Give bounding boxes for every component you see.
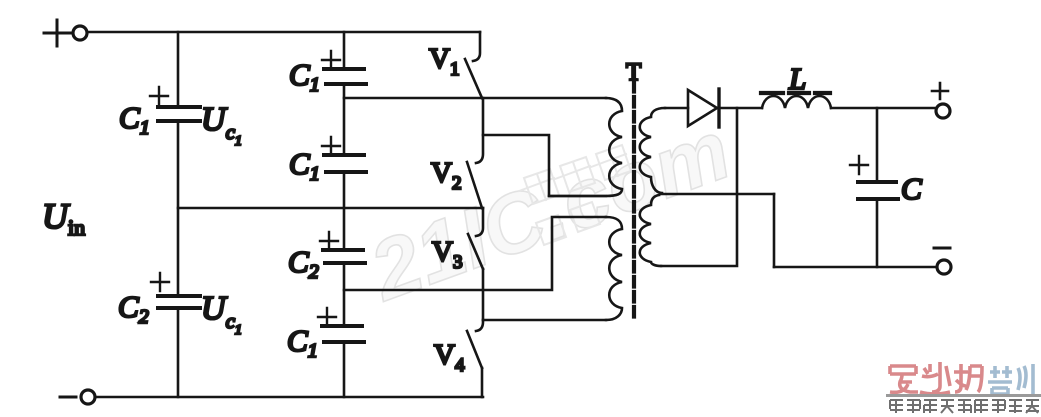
switch V3 [468,208,483,269]
svg-text:C: C [901,171,922,206]
capacitor C1 bridge top [324,69,366,84]
svg-text:L: L [788,61,806,96]
svg-text:V1: V1 [429,43,459,80]
wire inductor to output + [831,107,936,110]
diode VD [688,89,719,127]
svg-text:C1: C1 [119,100,150,139]
wire secondary2 bottom to diode cathode node [661,108,737,266]
svg-text:T: T [626,59,641,86]
switch V1 [465,32,482,98]
svg-text:Uc1: Uc1 [201,101,242,149]
wire middle column [343,32,346,397]
transformer core [632,82,636,317]
wire tap to output - rail [773,194,776,267]
watermark logo yiditu peixun [886,362,1041,413]
capacitor C output [858,108,898,267]
output terminal - [934,248,951,274]
svg-text:C1: C1 [289,146,320,185]
capacitor C1 bridge second [324,155,366,172]
svg-text:C1: C1 [289,57,320,96]
watermark 21IC [357,102,742,319]
inductor core dashes [761,91,830,95]
wire secondary tap line [661,193,774,196]
svg-text:C2: C2 [288,244,319,283]
svg-text:Uc1: Uc1 [201,290,242,338]
polarity + of C output [850,156,868,174]
capacitor C1 input upper [158,107,200,121]
polarity + [318,308,336,326]
wire diode to inductor [717,107,762,110]
logo slogan [890,400,1039,413]
input terminal + [44,20,87,46]
wire secondary1 to diode [665,107,688,110]
polarity + of C1 upper [150,87,168,105]
transformer secondary winding upper [640,108,665,193]
wire midpoint to primary2 bottom [483,319,606,322]
svg-text:V2: V2 [431,157,461,194]
wire left column [177,32,180,397]
capacitor C2 input lower [158,296,200,308]
inductor L [762,96,831,108]
wire top rail [88,31,480,34]
output terminal + [932,83,950,118]
svg-text:C1: C1 [287,323,318,362]
polarity + [322,51,340,69]
logo underline [886,394,1041,397]
wire rail V3-V4 node [344,217,606,290]
capacitor C1 bridge bottom [322,326,364,342]
switch V2 [467,162,482,208]
input terminal - [60,390,95,404]
wire output - rail [774,266,937,269]
wire rail mid node [178,207,483,210]
svg-text:V4: V4 [434,339,465,376]
polarity + of C2 lower [151,273,169,291]
capacitor C2 bridge third [323,250,365,263]
polarity + [320,232,338,250]
wire bottom rail [96,396,483,399]
polarity + [322,137,340,155]
wire midpoint to primary1 bottom [483,135,606,196]
transformer primary winding upper [549,98,622,196]
svg-text:Uin: Uin [42,196,85,240]
wire V1-V2 midpoint [476,98,483,163]
wire V3-V4 midpoint [482,269,485,320]
transformer secondary winding lower [640,195,661,266]
svg-text:C2: C2 [118,289,149,328]
wire rail V1-V2 node [344,97,606,100]
transformer primary winding lower [606,217,622,320]
switch V4 [467,320,483,397]
